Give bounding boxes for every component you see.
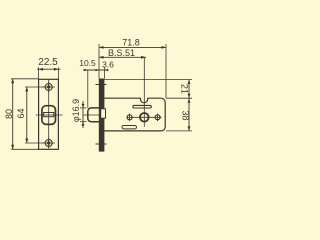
dim 64 line	[26, 87, 28, 143]
screw hole top (front view)	[42, 81, 55, 93]
dim 22.5 line	[37, 68, 60, 70]
dim phi16.9 line	[82, 101, 84, 128]
svg-text:3.6: 3.6	[102, 60, 114, 70]
svg-text:21: 21	[179, 84, 189, 94]
dim phi16.9 ext top	[80, 107, 87, 109]
dim 80 ext top	[11, 78, 39, 80]
svg-text:38: 38	[180, 110, 190, 120]
svg-text:71.8: 71.8	[122, 38, 140, 48]
screw tick top (side view)	[96, 84, 107, 86]
svg-text:22.5: 22.5	[38, 57, 58, 68]
dim 64 ext bottom	[25, 142, 45, 144]
ref case bottom right	[166, 130, 192, 132]
dim B.S.51 line	[99, 56, 146, 58]
dim 80 line	[12, 79, 14, 150]
spindle hub circle	[140, 113, 149, 122]
dim 71.8 line	[99, 46, 166, 48]
front view horizontal centerline	[36, 114, 63, 116]
phi16.9 arrows (outside pointing in)	[82, 104, 85, 108]
dim phi16.9 ext bottom	[80, 121, 87, 123]
svg-text:φ16.9: φ16.9	[71, 99, 81, 122]
dim 80 ext bottom	[11, 148, 39, 150]
faceplate side view bar (filled)	[99, 79, 105, 152]
dim 21/38 line	[188, 80, 190, 131]
left circle vertical tick	[129, 114, 131, 122]
80 arrows	[11, 79, 14, 84]
right screw circle (case)	[155, 115, 160, 120]
svg-text:B.S.51: B.S.51	[108, 48, 135, 58]
10.5 arrows	[84, 69, 88, 72]
svg-text:64: 64	[16, 108, 26, 118]
bolt centerline (side view)	[83, 114, 107, 116]
latch bolt inner rect	[44, 113, 54, 117]
dim 22.5 ext left	[38, 67, 40, 79]
ext faceplate rear	[104, 67, 106, 79]
22.5 arrows	[39, 68, 44, 71]
dim 64 ext top	[25, 86, 45, 88]
ref faceplate top	[105, 79, 193, 81]
bottom slot (case)	[122, 126, 137, 129]
dimension texts	[4, 38, 190, 122]
ref case top right	[166, 97, 192, 99]
left screw circle (case)	[127, 115, 132, 120]
spindle vertical centerline	[143, 57, 145, 127]
front view vertical centerline	[48, 80, 50, 149]
bolt tail rect through faceplate	[101, 109, 106, 118]
screw tick bottom (side view)	[96, 143, 107, 145]
svg-text:80: 80	[4, 109, 14, 119]
latch bolt front view (stadium)	[42, 106, 56, 125]
faceplate front view rectangle	[39, 79, 59, 149]
ext faceplate front (long)	[98, 44, 100, 79]
21/38 arrows	[188, 80, 191, 85]
B.S.51 arrows	[99, 56, 104, 59]
right circle vertical tick	[157, 114, 159, 122]
ext bolt nose	[87, 70, 89, 108]
dim 22.5 ext right	[57, 67, 59, 79]
dim 10.5/3.6 line	[83, 69, 109, 71]
3.6 arrow right outside	[105, 69, 109, 72]
svg-text:10.5: 10.5	[79, 58, 96, 68]
screw hole bottom (front view)	[42, 137, 55, 149]
bolt side view	[88, 108, 100, 122]
64 arrows	[25, 87, 28, 92]
arrowheads	[11, 46, 190, 149]
71.8 arrows	[99, 46, 104, 49]
top slot (case)	[133, 105, 151, 108]
lock case outline with notch	[104, 98, 165, 131]
ext case right	[165, 44, 167, 98]
circles horizontal centerline	[127, 116, 162, 118]
